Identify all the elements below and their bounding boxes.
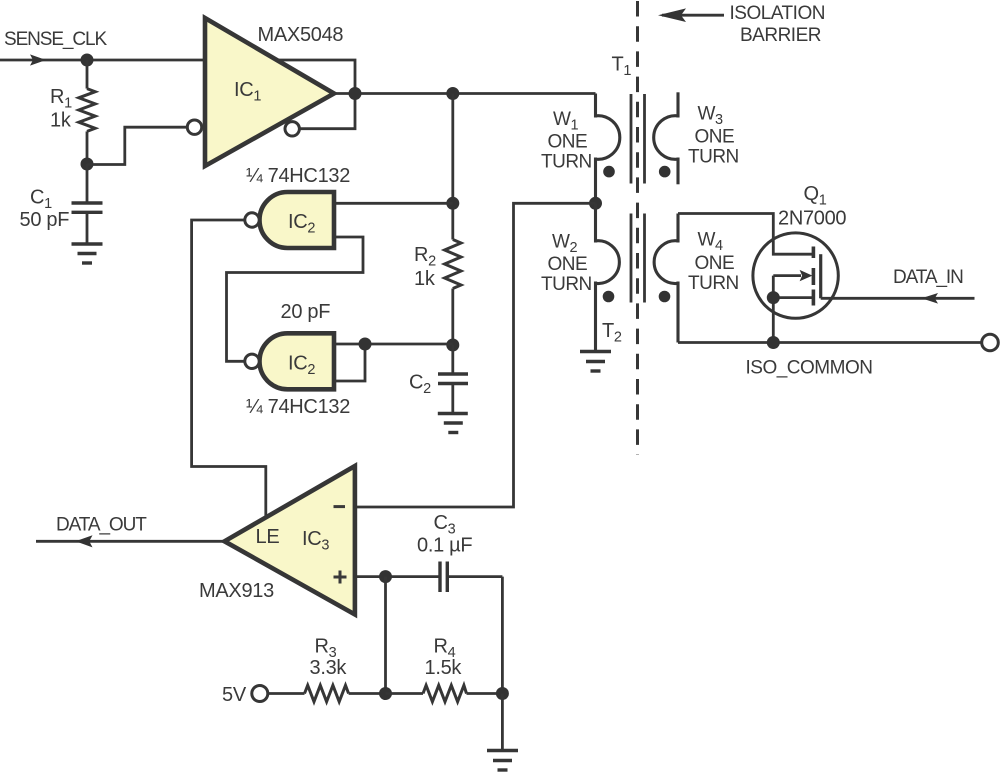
node R2 top branch <box>446 87 459 100</box>
polarity dot W4 <box>659 291 671 303</box>
svg-text:DATA_OUT: DATA_OUT <box>56 515 147 536</box>
svg-text:ISOLATION: ISOLATION <box>730 3 825 24</box>
node IC1 output <box>349 87 362 100</box>
bubble gate2 output <box>245 354 259 368</box>
wire gate1 top input to R2 node <box>334 202 453 205</box>
node R2/C2/gate2 junction <box>446 339 459 352</box>
svg-text:SENSE_CLK: SENSE_CLK <box>4 29 107 50</box>
comparator IC3 MAX913 triangle <box>225 466 355 615</box>
svg-text:1.5k: 1.5k <box>425 657 463 679</box>
wire gate2 inputs to C2 node <box>334 343 453 346</box>
wire sense tap to IC3 minus input <box>355 203 596 507</box>
wire feedback bottom loop <box>301 94 356 129</box>
transformer core T1 <box>631 94 645 184</box>
nand gate IC2 top (mirrored D shape) <box>260 192 335 248</box>
plus sign IC3 <box>334 571 347 584</box>
isolation barrier arrow <box>662 14 724 17</box>
polarity dot W2 <box>603 291 615 303</box>
svg-text:1k: 1k <box>414 268 436 290</box>
wire C3 right down to R4 node <box>501 577 504 694</box>
svg-text:BARRIER: BARRIER <box>740 25 821 46</box>
wire ISO_COMMON rail <box>678 341 982 344</box>
ground below R4 <box>487 751 518 771</box>
minus sign IC3 <box>334 505 346 508</box>
ground below W2 <box>580 352 611 372</box>
resistor R3 <box>268 685 386 701</box>
isolation barrier dashed line <box>636 1 639 455</box>
polarity dot W1 <box>603 166 615 178</box>
resistor R2 <box>445 240 461 346</box>
svg-text:50 pF: 50 pF <box>20 209 70 231</box>
wire DATA_OUT <box>36 540 226 543</box>
transformer T1 winding W1 <box>594 94 619 204</box>
node R4/C3 junction <box>496 687 509 700</box>
wire SENSE_CLK input <box>0 59 207 62</box>
transistor Q1 2N7000 <box>678 214 838 343</box>
arrowhead SENSE_CLK <box>30 54 46 65</box>
wire gate1 output to LE of IC3 <box>192 220 266 521</box>
terminal ISO_COMMON <box>982 334 999 351</box>
svg-text:ONE: ONE <box>695 253 735 274</box>
node junction R1/C1 <box>81 158 94 171</box>
node R3/R4 junction <box>379 687 392 700</box>
wire IC3 plus input <box>355 575 440 578</box>
svg-text:ONE: ONE <box>548 132 588 153</box>
svg-text:5V: 5V <box>222 684 247 706</box>
svg-text:ISO_COMMON: ISO_COMMON <box>746 358 873 379</box>
node W1/W2 junction <box>589 197 602 210</box>
transformer T1 winding W3 <box>654 92 679 184</box>
wire feedback top loop <box>275 60 355 94</box>
transformer T2 winding W4 <box>654 214 679 343</box>
transformer core T2 <box>631 214 645 303</box>
svg-text:TURN: TURN <box>688 273 739 294</box>
node gate2 input tie <box>359 338 372 351</box>
svg-text:¼ 74HC132: ¼ 74HC132 <box>246 165 350 187</box>
bubble IC1 hypotenuse pin <box>285 122 299 136</box>
wire plus node down to R3/R4 junction <box>384 577 387 694</box>
arrowhead DATA_OUT <box>76 535 93 547</box>
bubble gate1 output <box>245 213 259 227</box>
svg-text:TURN: TURN <box>688 147 739 168</box>
svg-text:TURN: TURN <box>541 152 592 173</box>
node Q1 source/body <box>767 291 780 304</box>
svg-text:2N7000: 2N7000 <box>778 208 846 230</box>
svg-text:¼ 74HC132: ¼ 74HC132 <box>246 396 350 418</box>
svg-text:3.3k: 3.3k <box>310 657 348 679</box>
resistor R1 <box>79 60 95 164</box>
ground below C2 <box>438 414 468 433</box>
svg-text:20 pF: 20 pF <box>281 301 331 323</box>
wire down to ground <box>501 694 504 751</box>
wire node to IC1 lower input bubble <box>87 127 187 164</box>
svg-text:1k: 1k <box>50 110 72 132</box>
wire gate2 lower input tie <box>334 344 365 381</box>
node ISO_COMMON junction <box>767 336 780 349</box>
capacitor C3 <box>440 562 502 593</box>
nand gate IC2 bottom (mirrored D shape) <box>260 333 335 389</box>
svg-text:LE: LE <box>256 526 280 548</box>
wire W4 top to Q1 drain <box>678 214 813 255</box>
polarity dot W3 <box>659 166 671 178</box>
svg-text:ONE: ONE <box>695 127 735 148</box>
resistor R4 <box>386 685 503 701</box>
wire gate1 bottom input loop to gate2 output <box>227 237 364 361</box>
svg-text:ONE: ONE <box>548 254 588 275</box>
node junction at R1 top <box>81 54 94 67</box>
wire down to R2 <box>451 94 454 240</box>
terminal 5V <box>252 686 268 702</box>
node gate1 input junction <box>446 197 459 210</box>
capacitor C2 <box>438 345 468 413</box>
capacitor C1 <box>72 164 103 244</box>
svg-text:0.1 µF: 0.1 µF <box>417 535 472 557</box>
svg-text:MAX913: MAX913 <box>199 580 274 602</box>
node plus input branch <box>379 570 392 583</box>
transformer T2 winding W2 <box>594 203 619 351</box>
ground below C1 <box>72 244 103 263</box>
wire IC1 output <box>334 92 596 95</box>
svg-text:TURN: TURN <box>541 274 592 295</box>
svg-text:MAX5048: MAX5048 <box>258 24 344 46</box>
buffer IC1 MAX5048 triangle <box>205 18 334 166</box>
svg-text:DATA_IN: DATA_IN <box>893 267 963 288</box>
wire DATA_IN to gate <box>821 297 975 300</box>
arrowhead DATA_IN <box>922 293 939 304</box>
bubble IC1 lower-left input <box>187 120 201 134</box>
